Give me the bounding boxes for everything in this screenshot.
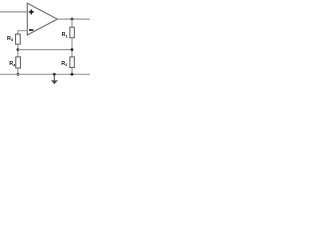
wire ground stub <box>53 74 55 80</box>
op-amp + pin mark <box>29 10 34 15</box>
wire feedback mid rail <box>18 49 72 51</box>
svg-text:R4: R4 <box>9 61 16 67</box>
wire R3 to node A <box>17 44 19 57</box>
node A junction dot <box>17 48 20 51</box>
op-amp - pin mark <box>29 29 33 31</box>
ground <box>51 80 58 84</box>
resistor R2 <box>70 57 74 68</box>
wire non-inverting input <box>0 11 27 13</box>
node junction dot R2/rail <box>71 73 74 76</box>
wire output <box>57 18 90 20</box>
op-amp U1 <box>27 3 57 35</box>
node junction dot R4/rail <box>17 73 20 76</box>
wire output node to R1 <box>71 19 73 27</box>
resistor R1 <box>70 27 74 38</box>
svg-text:R3: R3 <box>7 36 14 42</box>
resistor R4 <box>16 57 21 68</box>
svg-text:R1: R1 <box>62 32 69 38</box>
node output junction dot <box>71 18 74 21</box>
wire R4 to ground rail <box>17 68 19 74</box>
wire R2 to ground rail <box>71 68 73 75</box>
resistor R3 <box>16 34 21 44</box>
svg-text:R2: R2 <box>61 61 68 67</box>
wire ground rail <box>0 73 90 75</box>
node B junction dot <box>71 48 74 51</box>
node junction dot ground stub <box>53 73 56 76</box>
wire R1 to node B <box>71 38 73 57</box>
wire inverting input <box>18 31 27 34</box>
